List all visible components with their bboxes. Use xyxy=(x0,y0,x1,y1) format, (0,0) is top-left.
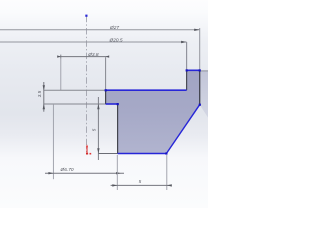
model edge right of part xyxy=(200,70,208,72)
arrow 3.5 bottom xyxy=(43,104,45,109)
svg-text:Ø3.8: Ø3.8 xyxy=(87,52,99,58)
model face strip right of sketch xyxy=(200,70,208,117)
arrow 5 vertical top xyxy=(97,104,99,109)
revolve profile shaded region xyxy=(106,70,200,153)
arrow 6.70 right xyxy=(116,172,121,174)
dimension 5 vertical line xyxy=(97,97,99,160)
arrow 6.70 left xyxy=(48,172,53,174)
arrow right diameter 3.8 xyxy=(106,55,110,57)
arrow 5 bottom right xyxy=(167,184,172,186)
extension line bottom dim right xyxy=(166,155,168,190)
extension line diameter 20.5 xyxy=(186,42,188,70)
svg-text:3.5: 3.5 xyxy=(37,90,42,97)
part edge outer wall xyxy=(199,70,201,104)
viewport background xyxy=(0,0,208,208)
dimension line diameter 6.70 xyxy=(45,172,124,174)
sketch edge bottom face xyxy=(118,153,167,155)
arrow 5 vertical bottom xyxy=(97,148,99,153)
svg-text:5: 5 xyxy=(91,128,96,131)
extension line diameter 27 xyxy=(199,28,201,70)
origin marker xyxy=(86,146,88,154)
arrow left diameter 3.8 xyxy=(57,55,61,57)
sketch edge rim top xyxy=(187,69,200,71)
part edge rim wall xyxy=(186,42,188,70)
dimension line diameter 27 xyxy=(0,29,200,31)
arrow 5 bottom left xyxy=(112,184,117,186)
flange bottom edge left half xyxy=(44,103,106,105)
dimension line 5 bottom xyxy=(111,184,172,186)
sketch edge chamfer xyxy=(166,105,199,154)
part edge hole wall xyxy=(117,104,119,154)
dimension line diameter 3.8 xyxy=(59,56,108,58)
arrow diameter 20.5 xyxy=(181,41,187,43)
dimension 3.5 vertical line xyxy=(43,82,45,112)
arrow diameter 27 xyxy=(194,29,200,31)
dimension line diameter 20.5 xyxy=(0,41,187,43)
svg-text:Ø27: Ø27 xyxy=(109,25,119,31)
sketch edge counterbore bottom xyxy=(106,103,118,105)
bottom face edge left of hole xyxy=(98,153,117,155)
svg-text:5: 5 xyxy=(139,179,142,184)
sketch vertex points xyxy=(105,89,107,91)
extension line bottom dim left xyxy=(116,155,118,190)
svg-text:Ø20.5: Ø20.5 xyxy=(109,37,123,43)
svg-text:Ø6.70: Ø6.70 xyxy=(60,167,74,173)
sketch edge top face xyxy=(106,89,187,91)
centerline xyxy=(86,16,88,152)
arrow 3.5 top xyxy=(43,85,45,90)
extension line diameter 6.70 left xyxy=(52,104,54,179)
extension line left of hole xyxy=(60,59,62,91)
part edge left wall upper xyxy=(105,57,107,90)
sketch point centerline top xyxy=(85,15,87,17)
flange top edge left half xyxy=(44,89,106,91)
